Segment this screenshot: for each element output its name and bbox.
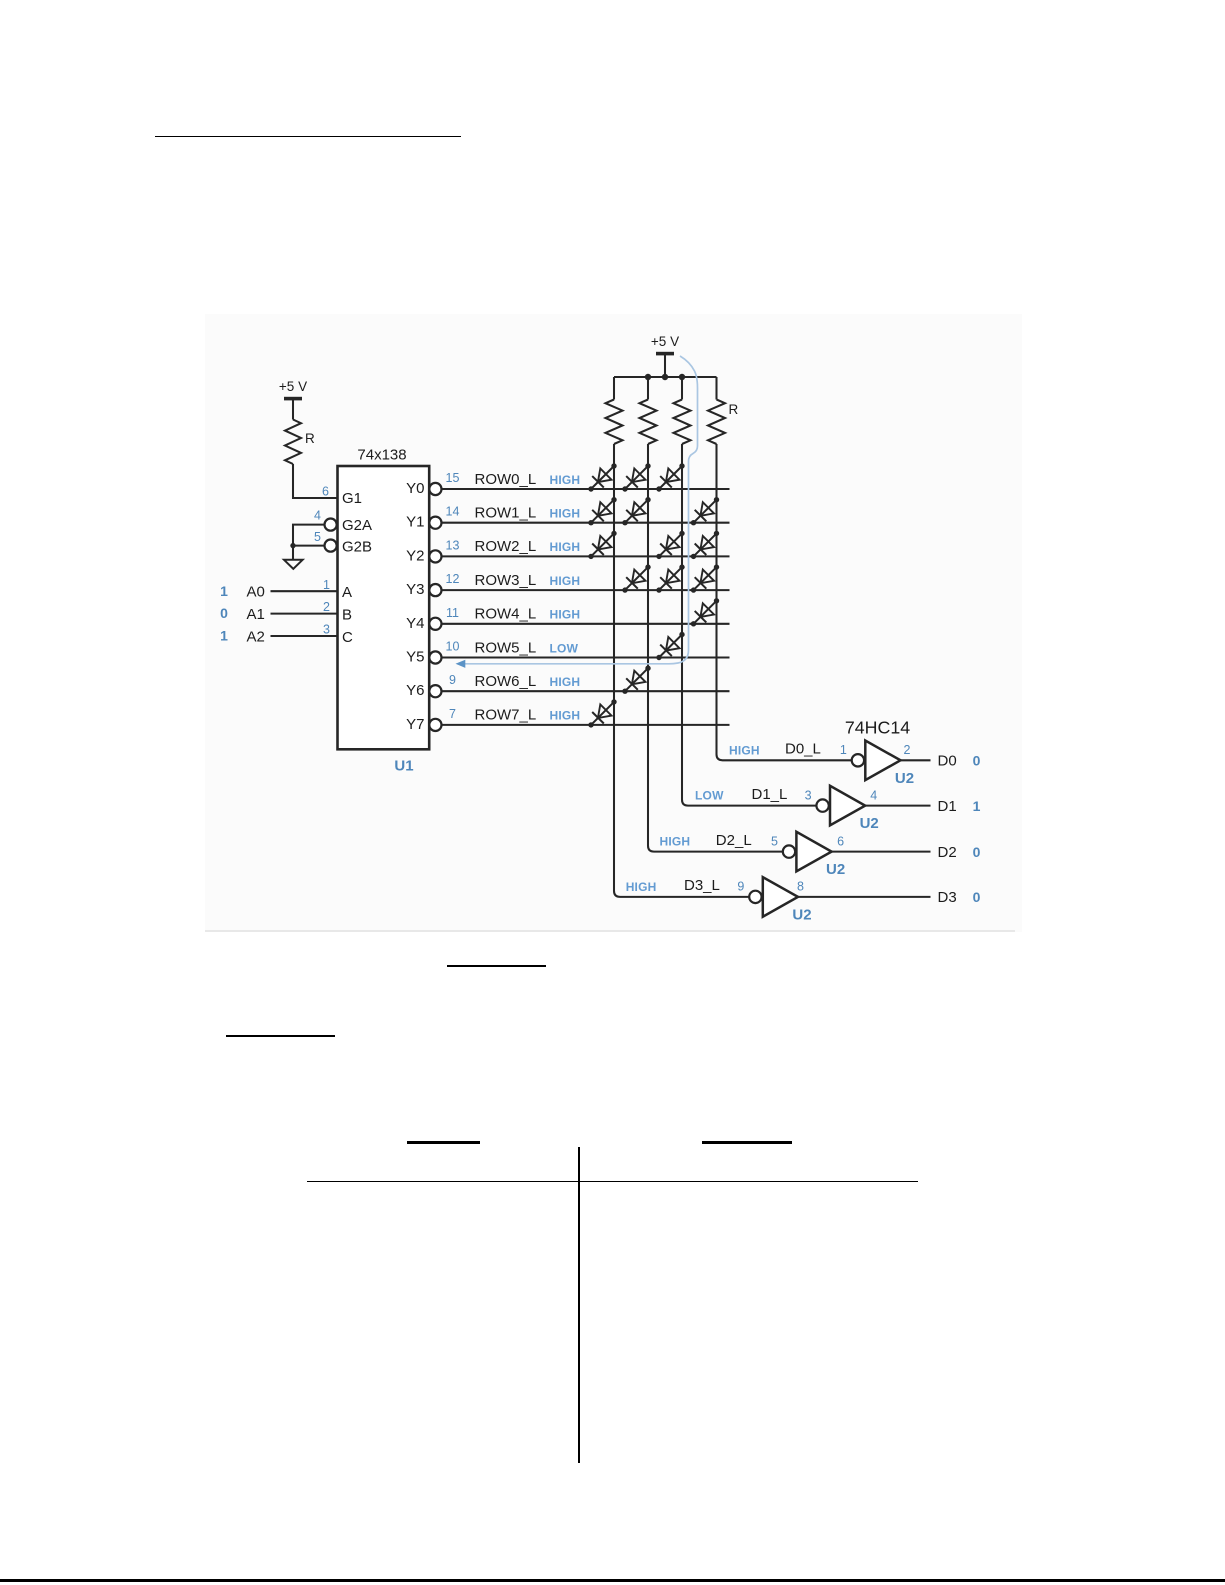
svg-text:Y6: Y6 [406,682,424,699]
svg-text:C: C [342,629,353,646]
wire col4 vertical [717,444,852,760]
underline paragraph [226,1035,335,1037]
svg-text:13: 13 [446,538,460,552]
svg-text:14: 14 [446,505,460,519]
wire col3 vertical [682,444,817,806]
input A2 wire [271,635,338,637]
inverter U2 (D3_L) bubble [749,891,761,903]
svg-text:+5 V: +5 V [651,334,679,349]
svg-text:D3: D3 [938,889,957,906]
svg-text:D0: D0 [938,753,957,770]
svg-text:U2: U2 [792,906,811,923]
junction G2B tie [290,543,295,548]
inverter U2 (D2_L) triangle [796,832,831,872]
svg-text:HIGH: HIGH [626,880,657,894]
resistor pull-up col2 [647,377,649,400]
svg-text:ROW0_L: ROW0_L [475,471,537,488]
svg-text:6: 6 [322,485,329,499]
svg-text:G2A: G2A [342,517,372,534]
svg-text:HIGH: HIGH [550,675,581,689]
svg-text:0: 0 [973,889,981,905]
underline heading [155,136,461,138]
resistor pull-up col3 [681,377,683,400]
junction bus x=682 [679,374,685,380]
inverter U2 (D0_L) bubble [852,754,864,766]
svg-text:1: 1 [840,743,847,757]
svg-text:ROW3_L: ROW3_L [475,572,537,589]
table vertical rule [578,1147,580,1463]
diode row4 col4 [691,598,719,626]
junction bus x=648 [645,374,651,380]
svg-text:D1_L: D1_L [752,786,788,803]
resistor pull-up col4 [715,377,717,400]
svg-text:ROW2_L: ROW2_L [475,538,537,555]
svg-text:3: 3 [323,623,330,637]
svg-text:A2: A2 [247,628,265,645]
wire D1 output [865,805,930,807]
diode row1 col1 [588,497,616,525]
diode row3 col3 [656,564,684,592]
svg-text:ROW1_L: ROW1_L [475,505,537,522]
svg-text:A1: A1 [247,606,265,623]
svg-text:9: 9 [737,880,744,894]
svg-text:B: B [342,606,352,623]
svg-text:A: A [342,584,352,601]
svg-text:R: R [305,431,315,446]
svg-text:HIGH: HIGH [550,507,581,521]
highlight path (blue) from +5V through col3 to ROW5 [460,356,698,664]
svg-text:6: 6 [837,834,844,848]
wire R to G1 [293,464,338,498]
svg-text:D3_L: D3_L [684,877,720,894]
svg-text:Y3: Y3 [406,581,424,598]
diode row7 col1 [588,699,616,727]
svg-text:ROW7_L: ROW7_L [475,707,537,724]
wire +5V bus [614,376,717,378]
svg-text:15: 15 [446,471,460,485]
wire ROW3_L (pin 12) [442,589,730,591]
diode row2 col1 [588,531,616,559]
svg-text:A0: A0 [247,584,265,601]
svg-text:1: 1 [973,798,981,814]
inverter U2 (D1_L) bubble [816,799,828,811]
svg-text:4: 4 [314,509,321,523]
circuit schematic figure [205,314,1022,932]
svg-text:0: 0 [973,844,981,860]
svg-text:LOW: LOW [550,641,579,655]
svg-text:Y5: Y5 [406,649,424,666]
svg-text:Y4: Y4 [406,615,424,632]
svg-text:Y1: Y1 [406,514,424,531]
svg-text:1: 1 [220,628,228,644]
svg-text:HIGH: HIGH [729,743,760,757]
svg-text:3: 3 [805,788,812,802]
diode row1 col2 [622,497,650,525]
svg-text:1: 1 [323,578,330,592]
diode row3 col4 [691,564,719,592]
svg-text:LOW: LOW [695,789,724,803]
wire D3 output [798,896,931,898]
svg-text:5: 5 [314,530,321,544]
svg-text:HIGH: HIGH [550,608,581,622]
svg-text:5: 5 [771,834,778,848]
wire D2 output [832,851,931,853]
wire ROW4_L (pin 11) [442,623,730,625]
wire ROW1_L (pin 14) [442,522,730,524]
diode row5 col3 [656,632,684,660]
svg-text:12: 12 [446,572,460,586]
inverter U2 (D2_L) bubble [783,845,795,857]
svg-text:11: 11 [446,606,459,620]
footer rule [0,1579,1225,1582]
power +5V (matrix) [651,334,679,377]
resistor R (left pull-up) [285,420,315,465]
svg-text:4: 4 [870,788,877,802]
svg-text:9: 9 [449,673,456,687]
input A1 wire [271,613,338,615]
svg-text:U2: U2 [860,815,879,832]
wire ROW0_L (pin 15) [442,488,730,490]
table header underline right [702,1141,792,1144]
diode row0 col1 [588,463,616,491]
svg-text:HIGH: HIGH [550,709,581,723]
svg-text:74x138: 74x138 [357,447,406,464]
underline below figure [447,965,546,967]
svg-text:ROW4_L: ROW4_L [475,606,537,623]
diode row6 col2 [622,666,650,694]
op: decoder U1 74x138 box [338,466,430,749]
svg-text:D1: D1 [938,798,957,815]
diode row0 col3 [656,463,684,491]
resistor pull-up col1 [613,377,615,400]
svg-text:G1: G1 [342,490,362,507]
svg-text:ROW5_L: ROW5_L [475,639,537,656]
diode row2 col3 [656,531,684,559]
arrow into Y5 [456,660,466,668]
svg-text:Y0: Y0 [406,480,424,497]
svg-text:74HC14: 74HC14 [845,718,910,738]
svg-text:R: R [729,402,739,417]
power +5V (left) [279,379,307,420]
inverter U2 (D0_L) triangle [865,741,900,781]
svg-text:D0_L: D0_L [785,741,821,758]
svg-text:Y7: Y7 [406,716,424,733]
svg-text:0: 0 [973,753,981,769]
svg-text:10: 10 [446,640,460,654]
svg-text:G2B: G2B [342,539,372,556]
svg-text:HIGH: HIGH [660,835,691,849]
svg-text:2: 2 [323,600,330,614]
diode row0 col2 [622,463,650,491]
svg-text:+5 V: +5 V [279,379,307,394]
svg-text:0: 0 [220,605,228,621]
table top rule [307,1181,918,1182]
wire ROW5_L (pin 10) [442,656,730,658]
svg-text:8: 8 [797,880,804,894]
ground [292,546,294,559]
junction bus x=665 [662,374,668,380]
svg-text:Y2: Y2 [406,547,424,564]
wire G2A/G2B tie [293,525,324,546]
table header underline left [407,1141,480,1144]
svg-text:D2_L: D2_L [716,832,752,849]
svg-text:ROW6_L: ROW6_L [475,673,537,690]
svg-text:HIGH: HIGH [550,473,581,487]
inverter U2 (D3_L) triangle [763,877,798,917]
svg-text:HIGH: HIGH [550,574,581,588]
wire D0 output [901,759,931,761]
svg-text:U1: U1 [394,758,413,775]
svg-text:U2: U2 [826,861,845,878]
svg-text:2: 2 [904,743,911,757]
diode row2 col4 [691,531,719,559]
wire ROW6_L (pin 9) [442,690,730,692]
inverter U2 (D1_L) triangle [830,786,865,826]
diode row1 col4 [691,497,719,525]
wire col1 vertical [614,444,749,897]
wire ROW2_L (pin 13) [442,555,730,557]
svg-text:HIGH: HIGH [550,540,581,554]
diode row3 col2 [622,564,650,592]
svg-text:1: 1 [220,583,228,599]
wire col2 vertical [648,444,783,852]
svg-text:7: 7 [449,707,456,721]
svg-text:U2: U2 [895,770,914,787]
wire ROW7_L (pin 7) [442,724,730,726]
svg-text:D2: D2 [938,844,957,861]
input A0 wire [271,590,338,592]
